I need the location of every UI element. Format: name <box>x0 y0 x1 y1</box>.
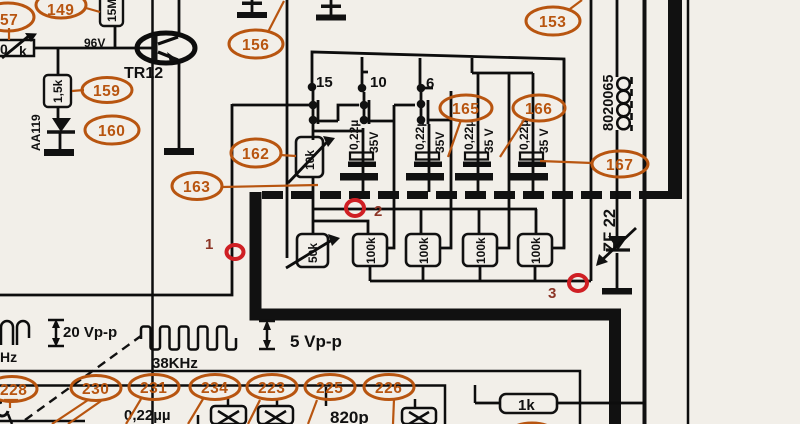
oval label 156 <box>229 30 283 58</box>
svg-text:165: 165 <box>452 101 479 118</box>
red ring 3 <box>569 275 587 291</box>
svg-text:Hz: Hz <box>0 349 17 365</box>
resistor 1k <box>475 394 645 414</box>
svg-text:0,22µ: 0,22µ <box>462 120 476 150</box>
resistor R1 100k <box>353 234 387 281</box>
pin 15 <box>308 74 333 91</box>
svg-text:1k: 1k <box>518 397 535 414</box>
IC pin bus <box>312 52 564 248</box>
capacitor to ground top-mid <box>316 0 346 21</box>
connector row cell 3 <box>417 92 451 124</box>
oval label below 1k cut <box>506 423 558 424</box>
svg-text:35 V: 35 V <box>482 128 496 153</box>
terminal bar under ZF22 <box>602 253 632 295</box>
svg-text:231: 231 <box>140 380 167 397</box>
leader 226 <box>393 399 394 424</box>
oval label 162 <box>231 139 281 167</box>
amplitude marker 5 Vp-p <box>259 320 275 350</box>
leader 225 <box>308 400 317 424</box>
svg-text:0,22µ: 0,22µ <box>517 120 531 150</box>
resistor R3 100k <box>463 234 497 281</box>
capacitor C3 0,022µ 35V <box>455 73 496 192</box>
svg-text:AA119: AA119 <box>29 114 43 151</box>
svg-text:35V: 35V <box>433 132 447 153</box>
svg-text:3: 3 <box>548 285 556 302</box>
leader 166 <box>500 120 524 157</box>
svg-text:225: 225 <box>316 380 343 397</box>
svg-text:162: 162 <box>242 146 269 163</box>
pin 10 <box>358 57 387 92</box>
potentiometer P1 "k" top-left <box>0 33 37 59</box>
bottom section frame line 2 <box>0 386 445 424</box>
svg-text:166: 166 <box>525 101 552 118</box>
svg-text:10: 10 <box>370 74 387 91</box>
svg-text:226: 226 <box>375 380 402 397</box>
leader 149 <box>86 8 100 12</box>
leader 162 <box>280 155 296 156</box>
wire: tall vertical x394 to resistor R1 <box>387 105 394 248</box>
thick L bus left <box>256 192 616 424</box>
wire: y222 wire to resistor R1 top <box>313 221 368 234</box>
leader 163 <box>222 185 318 187</box>
wire: connector stub and upper rail y73 <box>472 58 533 73</box>
waveform 38KHz <box>141 327 236 373</box>
wire: horizontal y206 feeding resistors <box>313 208 537 211</box>
resistor 1,5k <box>44 48 71 119</box>
oval label 166 <box>513 95 565 121</box>
oval label 234 <box>190 375 240 400</box>
svg-text:153: 153 <box>539 14 566 31</box>
lamp box with X 2 <box>258 398 293 424</box>
svg-text:57: 57 <box>0 12 18 29</box>
svg-text:228: 228 <box>0 382 27 399</box>
svg-text:15: 15 <box>316 74 333 91</box>
svg-text:820p: 820p <box>330 408 369 424</box>
diode AA119 <box>29 114 75 151</box>
wire: long vertical line through TR12 area x152 <box>151 0 154 424</box>
dashed pointer line <box>25 333 145 420</box>
wire: long vertical x645 <box>643 0 647 424</box>
wire: stub bottom left <box>197 415 200 424</box>
leader 157 <box>8 28 10 40</box>
svg-text:163: 163 <box>183 179 210 196</box>
oval label 149 <box>36 0 86 19</box>
svg-text:149: 149 <box>47 2 74 19</box>
leader 231 <box>126 399 141 424</box>
oval label 157 <box>0 3 34 31</box>
svg-text:35 V: 35 V <box>537 128 551 153</box>
thick bus corner right joining vertical bar <box>645 191 682 199</box>
oval label 160 <box>85 116 139 144</box>
oval label 230 <box>71 376 121 401</box>
thick dashed ground bus <box>262 191 650 199</box>
resistor 15M <box>100 0 123 48</box>
red ring 2 <box>346 200 364 216</box>
oval label 165 <box>440 95 492 121</box>
wire: long vertical x591 <box>590 0 593 281</box>
diode core symbol <box>596 228 636 266</box>
oval label 167 <box>592 151 648 177</box>
leader 156 <box>268 1 284 32</box>
svg-text:100k: 100k <box>417 237 431 264</box>
connector row cell 2 <box>360 92 415 124</box>
leader 165 <box>448 120 461 157</box>
ground for TR12 emitter <box>164 148 194 155</box>
svg-text:0,22µ: 0,22µ <box>347 120 361 150</box>
oval label 153 <box>526 7 580 35</box>
svg-text:160: 160 <box>98 123 125 140</box>
bottom section frame line 1 <box>0 371 580 424</box>
wire: long vertical x688 right page edge <box>687 0 690 424</box>
svg-text:1,5k: 1,5k <box>51 79 65 103</box>
potentiometer 10k <box>288 136 335 183</box>
wire: tall vertical x510 to resistor R3 <box>497 73 509 248</box>
oval label 226 <box>364 375 414 400</box>
svg-text:156: 156 <box>242 37 269 54</box>
leader 234 <box>188 399 203 424</box>
oval label 159 <box>82 78 132 103</box>
wire: bottom rail y278 <box>370 280 591 283</box>
leader 228 T mark <box>4 400 18 408</box>
svg-text:5 Vp-p: 5 Vp-p <box>290 332 342 351</box>
svg-text:TR12: TR12 <box>124 65 163 82</box>
leader 223 <box>248 400 260 424</box>
svg-text:8020065: 8020065 <box>601 75 617 131</box>
wire: vertical x232 with corner to horizontal y295 <box>0 104 232 295</box>
svg-text:100k: 100k <box>364 237 378 264</box>
svg-text:96V: 96V <box>84 36 105 50</box>
wire: drop x475 to 1k <box>474 385 477 403</box>
svg-text:0,22µ: 0,22µ <box>413 120 427 150</box>
capacitor C1 0,022µ 35V <box>340 120 381 192</box>
svg-text:100k: 100k <box>529 237 543 264</box>
svg-text:100k: 100k <box>474 237 488 264</box>
svg-text:20 Vp-p: 20 Vp-p <box>63 324 117 341</box>
svg-text:167: 167 <box>606 157 633 174</box>
wire: tall vertical x451 to resistor R2 <box>441 91 451 248</box>
capacitor C4 0,022µ 35V <box>510 73 551 192</box>
capacitor C2 0,022µ 35V <box>406 120 447 192</box>
ground for diode <box>44 149 74 156</box>
red ring 1 <box>227 245 244 259</box>
leader 159 <box>72 90 84 91</box>
pin 6 <box>417 58 435 92</box>
thick vertical bar top right <box>668 0 682 199</box>
svg-text:230: 230 <box>82 381 109 398</box>
capacitor to ground top-left <box>237 0 267 18</box>
resistor R2 100k <box>406 234 440 281</box>
svg-text:159: 159 <box>93 83 120 100</box>
transistor TR12 <box>137 0 195 149</box>
svg-text:35V: 35V <box>367 132 381 153</box>
svg-text:15M: 15M <box>105 0 119 22</box>
oval label 231 <box>129 375 179 400</box>
oval label 163 <box>172 173 222 200</box>
resistor R4 100k <box>518 234 552 281</box>
svg-text:223: 223 <box>258 380 285 397</box>
oval label 228 <box>0 377 37 402</box>
wire: base wire from pot to TR12 <box>35 47 153 50</box>
wire: 10k top to cap C1 <box>313 124 363 140</box>
wire: drop to R4 top <box>535 209 538 234</box>
leader 167 <box>540 161 592 163</box>
svg-text:38KHz: 38KHz <box>152 355 198 372</box>
wire: drop to R2 top <box>420 209 423 234</box>
svg-text:234: 234 <box>201 380 228 397</box>
wire: drop to R3 top <box>478 209 481 234</box>
svg-text:6: 6 <box>426 75 434 92</box>
leader 230 a <box>52 400 88 424</box>
lamp box with X 1 <box>211 398 246 424</box>
wire: long vertical x287 <box>286 0 289 258</box>
lamp box with X 3 <box>402 399 436 424</box>
wire: tall vertical x564 to resistor R4 <box>553 59 564 248</box>
wire: stub above 820p <box>325 387 328 406</box>
svg-text:2: 2 <box>374 203 382 220</box>
amplitude marker 20 Vp-p <box>48 319 64 347</box>
bottom-left fragment marks <box>0 402 85 424</box>
oval label 225 <box>305 375 355 400</box>
oval label 223 <box>247 375 297 400</box>
leader 230 b <box>68 401 101 424</box>
connector row cell 1 <box>232 87 359 124</box>
IF transformer coil ZF22 <box>617 0 632 236</box>
leader 153 <box>570 0 582 9</box>
wire: 10k bottom lead down to 50k <box>312 177 315 234</box>
potentiometer 50k <box>286 234 340 268</box>
svg-text:1: 1 <box>205 236 213 253</box>
waveform 19KHz sine left <box>0 321 29 365</box>
svg-text:k: k <box>19 43 27 59</box>
